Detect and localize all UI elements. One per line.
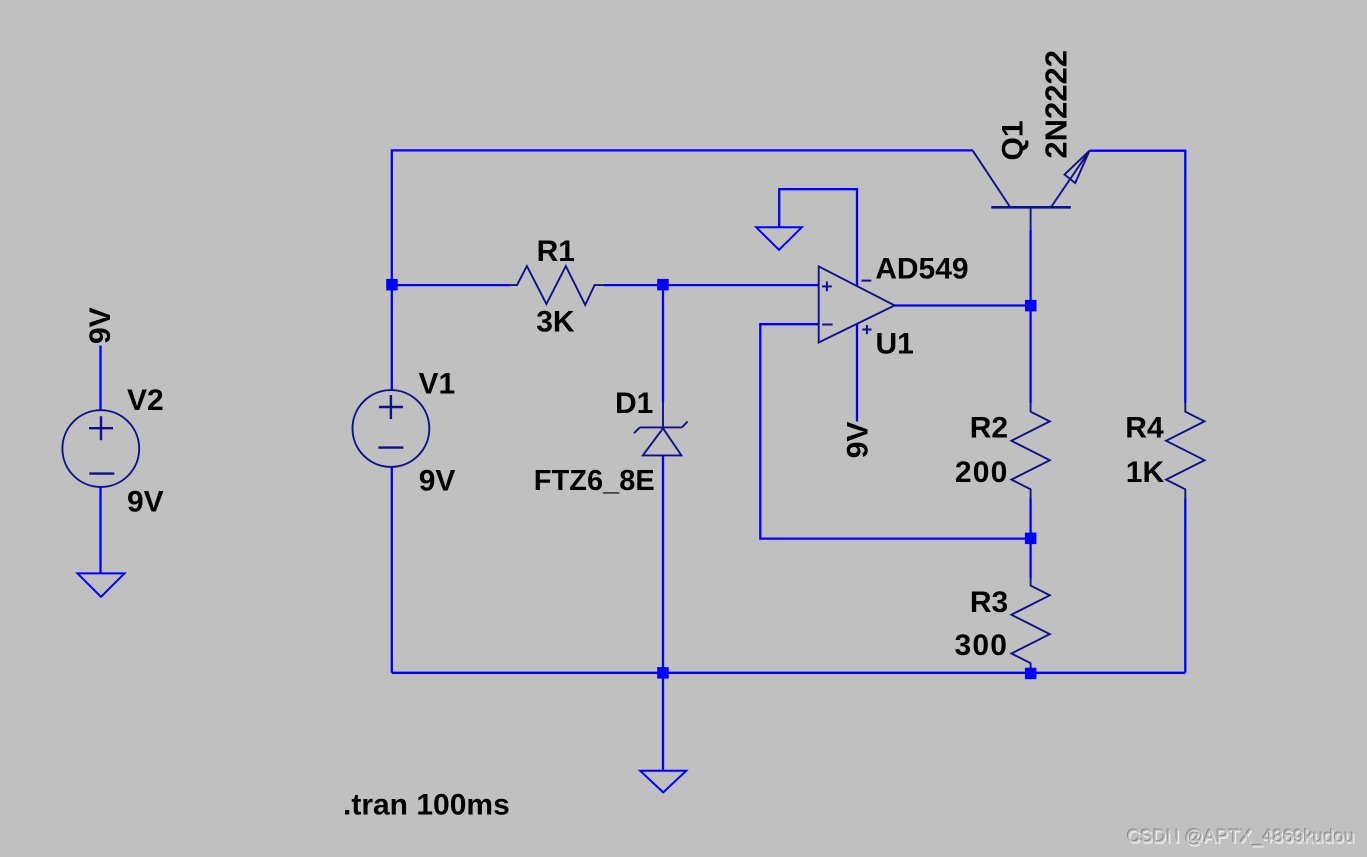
wire bottom rail [392,672,1186,674]
wire D1 top [662,285,664,403]
label R1 [537,235,575,268]
wire V1 bottom [391,467,393,673]
label 9V (V2 value) [127,486,164,519]
label 200 [955,456,1009,489]
label 300 [955,629,1009,662]
wire V1 top [391,285,393,391]
directive .tran 100ms [343,789,510,822]
svg-text:2N2222: 2N2222 [1039,50,1074,159]
wire Q1 emitter to right rail [1090,151,1186,403]
svg-text:3K: 3K [536,305,575,338]
resistor R4 [1166,403,1204,499]
svg-text:R3: R3 [970,586,1008,619]
ground (op-amp) [756,227,802,250]
label 2N2222 (rotated) [1039,50,1074,159]
wire V2 top [99,346,101,412]
label FTZ6_8E [534,465,655,497]
svg-text:.tran 100ms: .tran 100ms [343,789,510,822]
wire R1 right to op-amp + input [604,284,819,286]
wire op-amp V- pin to ground hook [779,189,857,286]
svg-text:9V: 9V [419,465,456,498]
wire Q1 base down to node [1029,230,1031,301]
watermark CSDN [1126,824,1356,848]
node (R2/R3/feedback junction) [1025,533,1037,545]
wire op-amp output [895,304,1025,306]
svg-text:200: 200 [955,456,1009,489]
voltage source V1 [353,390,430,467]
svg-text:FTZ6_8E: FTZ6_8E [534,465,655,497]
svg-text:R1: R1 [537,235,575,268]
resistor R3 [1011,579,1049,670]
label R2 [970,412,1008,445]
svg-text:CSDN @APTX_4869kudou: CSDN @APTX_4869kudou [1127,825,1355,847]
wire ground stem [662,673,664,771]
wire R3 bottom [1029,667,1031,673]
zener diode D1 [634,403,688,479]
node (bottom rail / D1 / ground) [657,667,669,679]
resistor R1 [509,266,605,305]
label 3K [536,305,575,338]
ground (V2) [78,573,125,596]
wire R4 bottom to bottom rail [1184,499,1186,673]
wire node to R2 [1029,310,1031,403]
label R4 [1125,412,1164,445]
svg-text:9V: 9V [84,307,117,344]
wire D1 bottom [662,455,664,672]
svg-text:V2: V2 [127,384,164,417]
wire R2 bottom to feedback node [1029,499,1031,535]
svg-text:9V: 9V [842,422,875,459]
op-amp U1 [819,266,895,342]
wire op-amp V+ pin [856,324,858,422]
label R3 [970,586,1008,619]
node (R1/D1 junction) [657,279,669,291]
svg-text:AD549: AD549 [875,253,968,286]
svg-text:V1: V1 [419,368,456,401]
wire node to R3 [1029,543,1031,579]
transistor Q1 [973,151,1090,232]
svg-text:300: 300 [955,629,1009,662]
ground (main) [640,771,686,793]
svg-text:R2: R2 [970,412,1008,445]
label V2 [127,384,164,417]
svg-text:1K: 1K [1126,456,1165,489]
label 1K [1126,456,1165,489]
wire R1 left [392,284,510,286]
wire top-left corner and top rail [392,150,973,284]
svg-text:9V: 9V [127,486,164,519]
label V1 [419,368,456,401]
label U1 [876,328,914,361]
label 9V (V1 value) [419,465,456,498]
node (V1/R1 junction) [386,279,398,291]
resistor R2 [1011,403,1049,499]
label Q1 (rotated) [997,120,1030,160]
label 9V (V2 top, rotated) [84,307,117,344]
wire V2 bottom [99,486,101,573]
svg-text:Q1: Q1 [997,120,1030,160]
label D1 [615,387,653,420]
svg-text:U1: U1 [876,328,914,361]
label AD549 [875,253,968,286]
label 9V (op-amp supply, rotated) [842,422,875,459]
svg-text:R4: R4 [1125,412,1164,445]
node (op-amp output / Q1 base / R2) [1025,300,1037,312]
svg-text:D1: D1 [615,387,653,420]
wire op-amp inverting input [760,324,1025,538]
node (R3 / bottom rail / R4) [1025,668,1037,680]
voltage source V2 [62,410,139,487]
